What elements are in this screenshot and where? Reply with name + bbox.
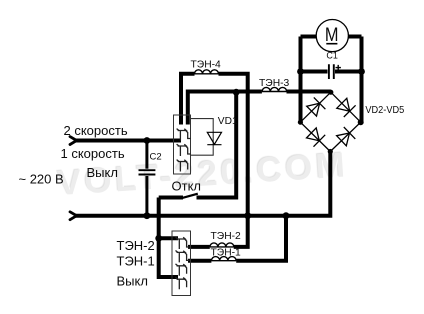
- node: junction C1 right: [358, 68, 365, 75]
- svg-text:~ 220 В: ~ 220 В: [19, 171, 64, 186]
- motor U1 circle: [316, 19, 348, 51]
- svg-text:ТЭН-3: ТЭН-3: [259, 78, 290, 89]
- node: junction at box2 feed: [155, 235, 162, 242]
- diode VD1 loop: [191, 119, 214, 156]
- diode VD3 top-right: [337, 98, 356, 117]
- svg-text:C2: C2: [150, 151, 162, 162]
- wire: TEN-4 to bus riser and down to TEN-2 coil: [219, 74, 248, 247]
- capacitor C2: [139, 170, 156, 174]
- wire: C2 lower lead to bus: [145, 176, 148, 216]
- label plus sign: [336, 65, 341, 70]
- box2 contact 1: [176, 237, 190, 289]
- box2 contact 3: [176, 264, 187, 276]
- wire: phase line "2 скорость" from arrow to switch box1: [76, 139, 182, 143]
- wire: tap to box2 first contact: [159, 236, 178, 240]
- svg-text:ТЭН-2: ТЭН-2: [211, 231, 242, 242]
- box2 contact 4: [176, 277, 187, 289]
- capacitor C1 plates: [329, 64, 334, 79]
- diode VD2 top-left: [307, 97, 326, 116]
- node: bridge bottom: [328, 149, 333, 154]
- svg-text:Откл: Откл: [172, 179, 202, 194]
- wire: TEN-1 horizontal from box2: [188, 259, 211, 263]
- box1 contact 3: [177, 160, 188, 172]
- wire: box1 pin2 up to TEN-3 line: [188, 92, 262, 125]
- diode bridge VD2-VD5 edges: [300, 92, 360, 151]
- switch box1 outline: [174, 115, 191, 174]
- heater TEN-2 coil: [210, 243, 234, 247]
- diode VD4 bottom-left: [307, 128, 326, 147]
- arrow input bottom: [70, 212, 77, 220]
- svg-text:C1: C1: [326, 51, 338, 61]
- wire: TEN-1 to bus riser: [236, 216, 286, 261]
- node: junction C2 tap on phase line: [144, 137, 151, 144]
- box1 contact 2: [177, 144, 191, 156]
- node: bus junction C2: [144, 212, 151, 219]
- node: bridge right: [358, 119, 364, 125]
- node: bus junction TEN-2 riser: [244, 212, 251, 219]
- svg-text:ТЭН-1: ТЭН-1: [211, 247, 242, 258]
- wire: C2 upper lead: [145, 141, 148, 169]
- svg-text:ТЭН-2: ТЭН-2: [117, 238, 155, 253]
- svg-text:ТЭН-4: ТЭН-4: [191, 60, 222, 71]
- svg-text:VD2-VD5: VD2-VD5: [365, 105, 404, 116]
- wire: TEN-3 to bridge top: [287, 90, 331, 94]
- svg-text:1 скорость: 1 скорость: [61, 146, 125, 161]
- wire: motor loop right vertical: [360, 37, 364, 123]
- box1 contact 1: [177, 129, 191, 172]
- wire: neutral bus with corner up to bridge bottom: [76, 152, 331, 216]
- node: bridge left: [298, 120, 303, 125]
- diode VD5 bottom-right: [337, 127, 356, 146]
- watermark: [56, 145, 349, 204]
- diode VD1: [207, 132, 221, 144]
- node: bridge top: [328, 90, 333, 95]
- wire: C1 line left: [301, 70, 328, 74]
- switch Otkl: [159, 196, 183, 200]
- wire: motor top right: [348, 35, 361, 39]
- wire: motor top left: [301, 35, 317, 39]
- node: junction C1 left: [297, 68, 304, 75]
- wire: Otkl switch feed vertical down to box2: [159, 198, 178, 278]
- svg-text:2 скорость: 2 скорость: [64, 123, 128, 138]
- heater TEN-3 coil: [262, 87, 287, 91]
- node: junction Otkl riser on TEN-3 line: [233, 89, 240, 96]
- wire: TEN-4 branch from box1 pin up and right: [181, 74, 195, 125]
- heater TEN-4 coil: [195, 70, 219, 74]
- svg-text:M: M: [325, 25, 339, 46]
- svg-text:Выкл: Выкл: [117, 274, 148, 289]
- switch box2 outline: [172, 231, 191, 296]
- wire: TEN-2 horizontal from box2 to riser: [188, 245, 210, 249]
- arrow input top: [70, 137, 77, 145]
- svg-text:Выкл: Выкл: [87, 165, 118, 180]
- box2 contact 2: [176, 251, 190, 263]
- svg-text:VD1: VD1: [218, 116, 238, 127]
- wire: C1 line right: [335, 70, 362, 74]
- svg-text:ТЭН-1: ТЭН-1: [117, 253, 155, 268]
- heater TEN-1 coil: [211, 257, 236, 261]
- node: bus junction TEN-1 riser: [283, 212, 290, 219]
- wire: motor loop left vertical: [299, 37, 303, 123]
